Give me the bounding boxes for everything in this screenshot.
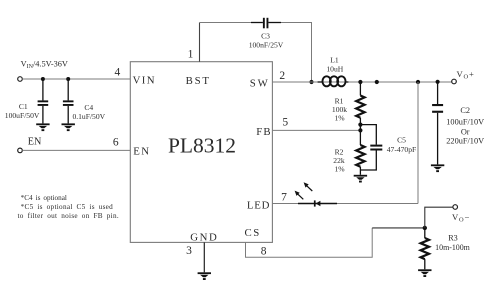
wire BST top run to C3 [200,22,252,24]
terminal Vo+ [452,79,457,84]
svg-text:5: 5 [282,116,288,128]
svg-text:GND: GND [190,231,218,243]
junction LED rail on SW line [416,80,420,84]
wire GND pin 3 [203,242,205,272]
svg-text:1%: 1% [334,114,345,123]
svg-text:C5: C5 [397,135,406,144]
wire EN terminal to pin 6 [22,149,130,151]
svg-text:0.1uF/50V: 0.1uF/50V [72,112,105,121]
svg-text:C3: C3 [261,32,270,41]
terminal EN input [18,148,23,153]
svg-text:LED: LED [247,200,270,212]
svg-text:C1: C1 [19,102,28,111]
LED arrow 1 [295,191,304,200]
resistor R2 [356,145,364,175]
ground R3 [418,269,431,277]
ground C4 [62,123,75,131]
ground C2 [431,164,444,172]
resistor R1 [356,82,364,125]
junction C4/VIN wire [66,77,70,81]
wire FB pin 5 [272,129,360,131]
wire VIN terminal to pin 4 [22,78,130,80]
junction R1 bottom / C5 branch [358,123,362,127]
svg-text:PL8312: PL8312 [168,134,236,158]
ground GND pin [198,272,211,280]
LED diode D1 [298,200,337,206]
wire CS to R3 node [372,227,425,229]
capacitor C5 [360,125,382,170]
svg-text:SW: SW [250,77,270,89]
svg-text:10m-100m: 10m-100m [435,243,470,252]
LED arrow 2 [304,182,313,191]
svg-text:6: 6 [113,136,119,148]
svg-text:220uF/10V: 220uF/10V [446,137,484,146]
svg-text:7: 7 [281,191,287,203]
wire LED rail down from SW line [417,82,419,204]
wire BST pin up [199,23,201,62]
junction C3 drop on SW line [309,80,313,84]
inductor L1 [318,76,349,86]
svg-text:100uF/50V: 100uF/50V [5,111,40,120]
IC U1 PL8312 body [130,62,272,243]
svg-text:EN: EN [28,137,42,148]
svg-text:10uH: 10uH [326,64,343,73]
junction R3 top node [423,226,427,230]
svg-text:4: 4 [115,66,121,78]
svg-text:Or: Or [461,128,470,137]
junction R1 top on SW line [358,80,362,84]
junction FB wire [358,128,362,132]
svg-text:CS: CS [245,227,261,239]
wire C3 to SW node [281,23,312,83]
junction stub on SW line [375,80,379,84]
svg-text:47-470pF: 47-470pF [387,145,417,154]
capacitor C2 [432,82,443,164]
wire LED pin 7 [272,203,418,205]
terminal VIN input [18,77,23,82]
wire FB node down to R2 [359,125,361,145]
svg-text:R3: R3 [448,234,458,243]
capacitor C4 [63,79,74,123]
svg-text:*C4 is optional: *C4 is optional [21,194,67,202]
capacitor C3 [251,18,281,29]
svg-text:to filter out noise on FB pin.: to filter out noise on FB pin. [18,212,119,220]
terminal Vo- [453,205,458,210]
svg-text:8: 8 [261,246,267,258]
svg-text:100nF/25V: 100nF/25V [249,41,284,50]
svg-text:1: 1 [188,49,194,61]
svg-text:*C5 is optional C5 is used: *C5 is optional C5 is used [21,203,114,211]
svg-text:L1: L1 [330,56,339,65]
capacitor C1 [38,79,49,123]
svg-text:C4: C4 [84,103,93,112]
svg-text:BST: BST [186,75,211,87]
junction C2 on SW line [436,80,440,84]
svg-text:1%: 1% [334,165,345,174]
ground R2 [354,175,367,183]
svg-text:C2: C2 [460,106,470,115]
wire SW pin 2 to Vo+ [272,81,451,83]
svg-text:EN: EN [133,146,150,158]
svg-text:3: 3 [186,245,192,257]
svg-text:FB: FB [256,126,272,138]
wire CS pin 8 run [246,228,373,257]
svg-text:100uF/10V: 100uF/10V [446,118,484,127]
svg-text:2: 2 [279,70,285,82]
junction C1/VIN wire [41,77,45,81]
svg-text:VIN: VIN [133,75,156,87]
ground C1 [36,123,49,131]
wire Vo- to R3 node [425,207,453,228]
resistor R3 [421,228,429,269]
